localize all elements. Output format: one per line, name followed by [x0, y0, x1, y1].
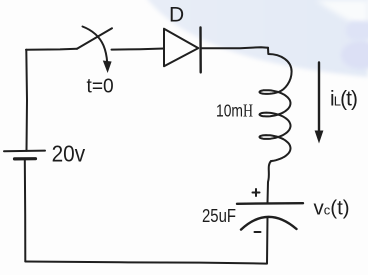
svg-text:D: D [169, 3, 184, 26]
svg-text:20v: 20v [52, 141, 86, 167]
svg-text:vc(t): vc(t) [314, 196, 350, 219]
svg-text:10mH: 10mH [216, 101, 253, 121]
svg-text:25uF: 25uF [202, 206, 236, 226]
svg-text:t=0: t=0 [87, 75, 114, 98]
